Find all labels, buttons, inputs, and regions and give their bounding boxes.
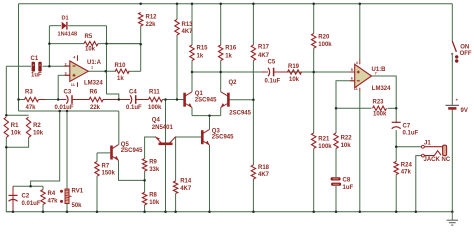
switch SW1 ON/OFF: [451, 41, 472, 63]
svg-text:2N5401: 2N5401: [152, 125, 174, 131]
wire C8 bottom: [335, 186, 337, 212]
svg-text:R18: R18: [258, 165, 270, 171]
resistor R8: [142, 192, 159, 206]
svg-text:R10: R10: [115, 63, 127, 69]
resistor R12: [139, 13, 158, 29]
wire R5 row: [49, 43, 140, 45]
svg-text:C2: C2: [22, 194, 30, 200]
svg-text:2SC945: 2SC945: [229, 111, 251, 117]
svg-text:R2: R2: [33, 123, 41, 129]
svg-text:5: 5: [351, 68, 353, 72]
wire R18 column: [252, 100, 254, 212]
svg-text:OFF: OFF: [460, 51, 472, 57]
node top rail junctions: [139, 2, 361, 4]
svg-text:0.01uF: 0.01uF: [22, 201, 41, 207]
wire R24 column: [395, 147, 397, 212]
svg-text:22k: 22k: [146, 22, 157, 28]
wire Q4 to Q3 base: [176, 136, 203, 138]
wire Q1 emitter drop: [191, 108, 193, 116]
resistor R4: [41, 190, 58, 205]
resistor R16: [219, 45, 237, 61]
node row R6/C4 junction: [118, 98, 121, 101]
svg-text:3: 3: [65, 72, 67, 76]
svg-text:C1: C1: [31, 56, 39, 62]
svg-text:C4: C4: [129, 90, 137, 96]
svg-text:Q1: Q1: [195, 91, 204, 97]
svg-text:U1:B: U1:B: [372, 67, 387, 73]
connector J1 JACK NC: [422, 141, 451, 163]
node R9 emitter junction: [143, 179, 146, 182]
transistor Q1: [185, 91, 218, 107]
capacitor C4: [126, 90, 142, 111]
resistor R14: [173, 179, 191, 194]
svg-text:10k: 10k: [341, 143, 352, 149]
wire feedback column D1/R5 to pin2 node: [48, 26, 50, 66]
wire RV1 to bottom rail: [66, 204, 68, 212]
wire R17 column: [252, 4, 254, 100]
capacitor C2: [9, 194, 41, 207]
svg-text:R8: R8: [149, 193, 157, 199]
ground: [447, 212, 458, 225]
svg-text:0.1uF: 0.1uF: [126, 105, 142, 111]
svg-text:10k: 10k: [33, 131, 44, 137]
svg-text:47k: 47k: [401, 170, 412, 176]
svg-text:4K7: 4K7: [180, 186, 192, 192]
resistor R9: [142, 159, 159, 173]
resistor R24: [394, 162, 412, 176]
op-amp U1:A: [65, 55, 104, 87]
wire R16 column: [220, 4, 222, 92]
wire R1R2 top: [6, 114, 28, 116]
wire row C4-R11: [136, 99, 149, 101]
svg-text:100k: 100k: [318, 42, 332, 48]
wire battery top column: [451, 4, 453, 42]
svg-text:U1:A: U1:A: [87, 60, 102, 66]
svg-text:22k: 22k: [90, 105, 101, 111]
svg-text:Q3: Q3: [212, 128, 221, 134]
wire R12 node column: [107, 26, 141, 71]
wire left column to bottom rail: [6, 147, 13, 212]
wire Q5 emitter run: [119, 160, 145, 180]
wire D1 right drop: [106, 26, 108, 94]
svg-text:J1: J1: [424, 141, 431, 147]
node Q2 collector row junction: [219, 71, 222, 74]
svg-text:LM324: LM324: [372, 86, 391, 92]
node C7/J1/R24 junction: [395, 145, 398, 148]
svg-text:Q4: Q4: [152, 118, 161, 124]
wire R20 column: [313, 4, 315, 72]
wire C1 to U1A pin2: [43, 65, 71, 67]
wire J1 sleeve to rail: [416, 156, 422, 212]
wire row R6-dot-C4: [103, 99, 130, 101]
svg-text:10k: 10k: [11, 131, 22, 137]
capacitor C7: [392, 122, 419, 137]
svg-text:R19: R19: [288, 64, 300, 70]
svg-text:4K7: 4K7: [258, 172, 270, 178]
capacitor C5: [265, 59, 281, 84]
wire R21 column: [313, 72, 315, 212]
wire RV1 column top: [66, 111, 68, 189]
wire R15 column: [191, 4, 193, 72]
svg-text:1uF: 1uF: [343, 185, 354, 191]
wire R14 column: [175, 137, 177, 212]
transistor Q5: [112, 142, 144, 161]
wire pin3 stub: [58, 74, 70, 76]
resistor R5: [84, 34, 98, 52]
wire D1 row: [49, 25, 106, 27]
wire Q4 base to bottom rail: [165, 144, 167, 212]
resistor R7: [95, 162, 116, 177]
svg-text:R14: R14: [180, 179, 192, 185]
svg-text:4K7: 4K7: [258, 53, 270, 59]
svg-text:1: 1: [91, 66, 93, 70]
svg-text:R22: R22: [341, 136, 353, 142]
svg-text:150k: 150k: [102, 170, 116, 176]
wire row R3 left: [19, 99, 26, 101]
wire R23 row: [336, 107, 396, 109]
capacitor C8: [331, 177, 354, 191]
node opamp A output junction: [104, 70, 107, 73]
wire row R3-C3: [39, 99, 67, 101]
wire Q3 emitter column: [209, 145, 211, 212]
node R1 top junction: [5, 114, 8, 117]
svg-text:1k: 1k: [197, 54, 204, 60]
resistor R3: [25, 90, 39, 111]
resistor R1: [4, 117, 21, 138]
svg-text:2: 2: [65, 62, 67, 66]
resistor R23: [373, 100, 388, 118]
resistor R15: [190, 45, 208, 61]
svg-text:C8: C8: [343, 178, 351, 184]
svg-text:R23: R23: [373, 100, 385, 106]
wire U1B V+ column: [359, 4, 361, 59]
wire pin6 loop: [336, 81, 355, 109]
svg-text:Q2: Q2: [229, 80, 238, 86]
node R13 row junction: [176, 98, 179, 101]
node R5/D1 junction: [48, 42, 51, 45]
node R5 to output column: [105, 42, 108, 45]
svg-text:100k: 100k: [373, 111, 387, 117]
wire top V+ rail: [19, 3, 453, 5]
wire emitter rail: [192, 115, 221, 117]
node C2R4 riser: [29, 185, 32, 188]
svg-text:+: +: [456, 98, 459, 103]
svg-text:R9: R9: [149, 159, 157, 165]
svg-text:1uF: 1uF: [31, 72, 42, 78]
resistor R20: [312, 34, 333, 49]
svg-text:1k: 1k: [225, 54, 232, 60]
resistor R18: [251, 165, 269, 179]
transistor Q3: [202, 128, 234, 145]
wire R2 bottom loop: [6, 138, 28, 148]
svg-text:10k: 10k: [289, 77, 300, 83]
wire R13 column: [176, 4, 178, 100]
node R17/R18/Q2 base junction: [252, 98, 255, 101]
battery BT1 9V: [446, 98, 468, 115]
svg-text:R11: R11: [149, 90, 160, 96]
resistor R17: [251, 44, 269, 60]
svg-text:1k: 1k: [117, 76, 124, 82]
node R14 top junction: [0, 0, 1, 1]
wire R10 right to R12 node: [128, 70, 141, 72]
svg-text:D1: D1: [62, 16, 69, 22]
wire row C3-R6: [72, 99, 90, 101]
wire U1B V- column: [359, 92, 361, 212]
wire R7 column: [96, 153, 98, 212]
node bias row taps: [58, 110, 68, 113]
node C1 feedback junction: [48, 65, 51, 68]
svg-text:100k: 100k: [318, 144, 332, 150]
wire left column from rail: [18, 4, 20, 111]
svg-text:R21: R21: [318, 136, 330, 142]
svg-text:47k: 47k: [26, 105, 37, 111]
svg-text:2SC945: 2SC945: [212, 135, 234, 141]
wire Q5 base row: [97, 152, 112, 154]
wire Q2 emitter drop: [220, 108, 222, 116]
resistor R19: [288, 64, 302, 83]
wire C2R4 top: [13, 185, 43, 187]
svg-text:9V: 9V: [461, 108, 468, 114]
wire R22 column: [335, 108, 337, 177]
resistor R2: [26, 117, 43, 138]
node R1 bottom junction: [5, 146, 8, 149]
svg-text:R24: R24: [401, 163, 413, 169]
wire U1B output loop: [372, 76, 397, 108]
svg-text:R6: R6: [90, 90, 98, 96]
svg-text:R3: R3: [25, 90, 33, 96]
node Q1 collector row junction: [191, 71, 194, 74]
svg-text:11: 11: [71, 83, 75, 87]
node R3 left junction: [17, 98, 20, 101]
svg-text:R1: R1: [11, 123, 19, 129]
wire R1 bottom segment: [5, 138, 7, 148]
resistor R10: [115, 63, 130, 82]
svg-text:11: 11: [354, 87, 358, 91]
resistor R21: [312, 133, 333, 150]
capacitor C1: [31, 56, 43, 78]
wire C2 leads: [12, 186, 14, 212]
svg-text:R4: R4: [48, 191, 56, 197]
resistor R13: [175, 19, 193, 35]
svg-text:R16: R16: [225, 45, 237, 51]
svg-text:R7: R7: [102, 163, 110, 169]
svg-text:R20: R20: [318, 35, 330, 41]
wire input left column: [5, 66, 7, 115]
svg-text:R5: R5: [85, 34, 93, 40]
wire Q1 collector column: [191, 72, 193, 92]
wire pin3 down to R3 node: [57, 75, 59, 99]
node Q4 base row junction: [164, 98, 167, 101]
svg-text:Q5: Q5: [121, 142, 130, 148]
node R23/C7 junction: [395, 107, 398, 110]
node pin3/R3/C3 junction: [57, 98, 60, 101]
transistor Q4: [152, 118, 176, 144]
wire output jog to row: [107, 94, 119, 100]
transistor Q2: [221, 80, 252, 117]
wire signal row y72: [192, 71, 355, 73]
wire Q4 base column: [165, 100, 167, 144]
capacitor C3: [55, 90, 74, 111]
svg-text:C5: C5: [268, 59, 276, 65]
svg-text:2SC945: 2SC945: [195, 98, 217, 104]
wire riser from C2R4 to bias row: [31, 111, 60, 186]
wire battery to bottom rail: [451, 110, 453, 212]
svg-text:ON: ON: [460, 44, 469, 50]
op-amp U1:B: [350, 59, 391, 92]
svg-text:JACK NC: JACK NC: [424, 157, 451, 163]
svg-text:33k: 33k: [149, 167, 160, 173]
wire row R11-Q1 base: [163, 99, 185, 101]
svg-text:1N4148: 1N4148: [58, 31, 78, 37]
svg-text:R17: R17: [258, 44, 270, 50]
wire switch to battery: [451, 55, 453, 105]
resistor R11: [148, 90, 163, 111]
wire J1 tip: [396, 146, 421, 148]
wire bottom rail: [6, 211, 452, 213]
diode D1: [58, 16, 78, 38]
wire R8 bottom: [144, 205, 146, 212]
resistor R6: [89, 90, 103, 111]
wire Q2 base row: [230, 99, 254, 101]
svg-text:2SC945: 2SC945: [121, 148, 143, 154]
node R19/R20/R21 junction: [312, 71, 315, 74]
svg-text:R15: R15: [197, 45, 209, 51]
wire R9-R8 mid: [144, 171, 146, 192]
svg-text:0.1uF: 0.1uF: [265, 78, 281, 84]
potentiometer RV1: [60, 189, 84, 210]
wire C7 column: [395, 108, 397, 146]
wire input row to C1: [6, 65, 31, 67]
svg-text:0.01uF: 0.01uF: [55, 105, 74, 111]
svg-text:R13: R13: [182, 22, 194, 28]
node pin6 feedback junction: [335, 107, 338, 110]
svg-text:C3: C3: [64, 90, 72, 96]
svg-text:C7: C7: [403, 124, 411, 130]
svg-text:0.1uF: 0.1uF: [403, 131, 419, 137]
svg-text:LM324: LM324: [84, 81, 103, 87]
svg-text:6: 6: [351, 77, 353, 81]
resistor R22: [334, 133, 352, 149]
svg-text:10k: 10k: [149, 200, 160, 206]
svg-text:RV1: RV1: [72, 189, 84, 195]
wire R4 leads: [42, 186, 44, 212]
wire Q3 collector drop: [209, 116, 211, 130]
node R12 bottom junction: [139, 43, 142, 46]
node emitter rail junction: [208, 114, 211, 117]
svg-text:47k: 47k: [48, 199, 59, 205]
svg-text:10k: 10k: [85, 46, 96, 52]
node bottom rail junctions: [12, 211, 454, 214]
svg-text:100k: 100k: [148, 105, 162, 111]
svg-text:50k: 50k: [72, 203, 83, 209]
svg-text:R12: R12: [146, 15, 158, 21]
svg-text:4K7: 4K7: [182, 29, 194, 35]
wire R9 top riser: [145, 137, 156, 159]
wire Q5 collector drop: [118, 111, 120, 145]
wire opamp A output: [88, 70, 116, 72]
wire bias row y111: [19, 110, 119, 112]
